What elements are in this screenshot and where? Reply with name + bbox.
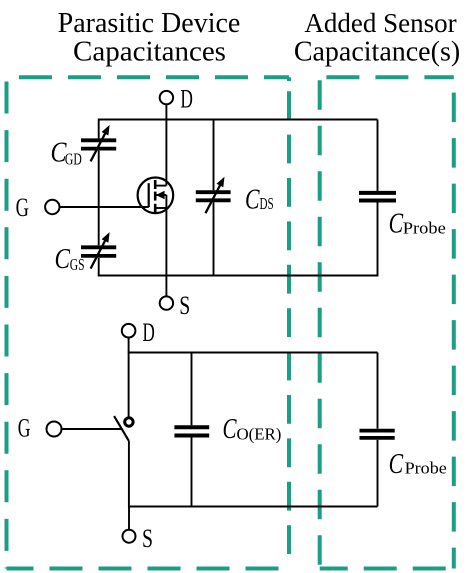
wire: C_O(ER) branch lower	[191, 438, 193, 507]
node G (gate terminal, bottom circuit)	[18, 413, 62, 442]
svg-text:C: C	[389, 449, 404, 480]
svg-text:Probe: Probe	[405, 458, 447, 477]
svg-text:G: G	[18, 413, 31, 442]
label C_Probe (bottom)	[389, 449, 447, 480]
wire: bottom rail of switch cell	[129, 506, 378, 508]
wire: drain down into MOSFET	[165, 120, 167, 186]
wire: C_Probe (top) branch upper	[377, 120, 379, 191]
svg-text:Capacitances: Capacitances	[73, 35, 226, 67]
svg-text:Added Sensor: Added Sensor	[304, 8, 456, 38]
wire: top rail of switch cell	[129, 352, 378, 354]
svg-text:GD: GD	[65, 150, 82, 169]
dashed box: added sensor capacitance(s)	[320, 77, 454, 568]
dashed box: parasitic device capacitances	[7, 77, 290, 568]
label C_GS	[55, 244, 85, 275]
svg-text:S: S	[179, 291, 190, 320]
label C_DS	[245, 184, 274, 215]
transistor Q1 (power MOSFET)	[138, 178, 174, 276]
svg-text:C: C	[245, 184, 260, 215]
wire: D terminal down to top rail	[128, 338, 130, 353]
title right: Added Sensor Capacitance(s)	[294, 8, 460, 67]
node S (source terminal, top circuit)	[160, 291, 191, 320]
label C_Probe (top)	[389, 209, 446, 240]
wire: gate wire to MOSFET	[60, 206, 149, 208]
svg-text:DS: DS	[260, 194, 274, 213]
svg-text:C: C	[389, 209, 404, 240]
wire: top rail of MOSFET cell	[99, 119, 378, 121]
capacitor C_GD (variable)	[81, 125, 116, 161]
capacitor C_O(ER)	[174, 427, 209, 435]
wire: D terminal to top rail	[165, 104, 167, 119]
title left: Parasitic Device Capacitances	[58, 8, 241, 67]
node S (source terminal, bottom circuit)	[123, 524, 154, 553]
node D (drain terminal, top circuit)	[160, 85, 193, 114]
wire: left branch upper segment (top rail to C_GD)	[98, 119, 100, 139]
svg-text:Parasitic Device: Parasitic Device	[58, 8, 241, 39]
wire: C_O(ER) branch upper	[191, 353, 193, 426]
switch S1 (ideal switch)	[114, 352, 133, 508]
wire: C_Probe (bottom) branch upper	[377, 353, 379, 429]
svg-text:D: D	[143, 318, 155, 347]
svg-text:D: D	[180, 85, 193, 114]
wire: C_DS branch lower	[213, 202, 215, 275]
wire: left branch middle segment (C_GD to C_GS, crosses gate wire)	[98, 151, 100, 246]
wire: C_Probe (bottom) branch lower	[377, 440, 379, 507]
wire: bottom rail to S terminal	[165, 276, 167, 297]
wire: gate wire to switch blade	[62, 428, 122, 430]
capacitor C_DS (variable)	[196, 177, 231, 214]
svg-text:G: G	[16, 193, 29, 222]
node D (drain terminal, bottom circuit)	[122, 318, 155, 347]
svg-text:C: C	[55, 244, 71, 275]
svg-text:S: S	[142, 524, 153, 553]
svg-text:Capacitance(s): Capacitance(s)	[294, 36, 460, 67]
wire: left branch lower segment (C_GS to bottom rail)	[98, 258, 100, 277]
wire: C_DS branch upper	[213, 120, 215, 191]
svg-text:O(ER): O(ER)	[237, 425, 282, 444]
capacitor C_GS (variable)	[81, 232, 116, 269]
svg-text:Probe: Probe	[403, 218, 446, 237]
svg-text:GS: GS	[70, 255, 85, 274]
wire: C_Probe (top) branch lower	[377, 203, 379, 277]
wire: bottom rail of MOSFET cell	[99, 275, 378, 277]
label C_GD	[51, 138, 82, 169]
label C_O(ER)	[223, 414, 282, 445]
svg-text:C: C	[223, 414, 238, 445]
node G (gate terminal, top circuit)	[16, 193, 60, 222]
wire: bottom rail to S terminal	[128, 507, 130, 530]
capacitor C_Probe (bottom)	[360, 431, 395, 438]
capacitor C_Probe (top)	[359, 193, 396, 201]
